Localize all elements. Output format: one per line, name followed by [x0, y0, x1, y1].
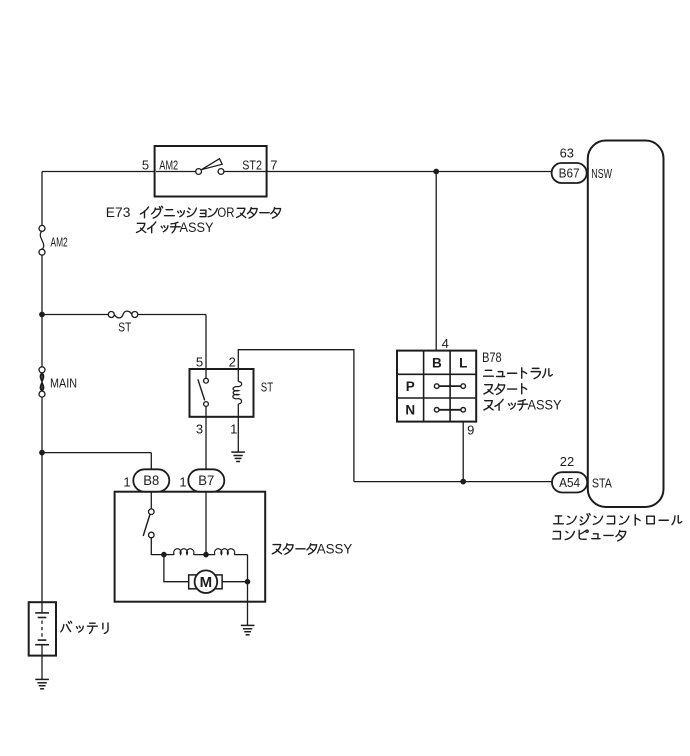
battery plate long bottom — [35, 644, 49, 646]
svg-text:B: B — [432, 355, 442, 370]
node F junction (B7 feed) — [204, 552, 209, 557]
wire: node C down to neutral start switch pin 4 — [435, 172, 437, 351]
wire: node A to fuse ST — [42, 314, 108, 316]
fuse ST right terminal — [132, 312, 138, 318]
svg-text:1: 1 — [179, 475, 186, 490]
B78 contact N row left terminal — [434, 408, 439, 413]
B78 contact P row right terminal — [461, 384, 466, 389]
svg-text:22: 22 — [560, 454, 574, 469]
battery cells dashed link — [41, 621, 43, 638]
battery box — [29, 602, 56, 655]
label バッテリ — [61, 621, 72, 632]
wire: ST2 contact to ECU NSW junction — [224, 171, 552, 173]
wire: neutral start switch pin 9 down to STA line — [462, 422, 464, 482]
svg-text:7: 7 — [270, 158, 277, 173]
wire: node G to starter ground — [247, 582, 249, 626]
ground: battery — [35, 678, 49, 680]
fuse ST left terminal — [108, 312, 114, 318]
fusible link MAIN element — [40, 373, 44, 391]
svg-text:NSW: NSW — [591, 166, 612, 181]
fuse ST element — [114, 311, 132, 318]
wire: STA line to ECU pin A54 — [354, 481, 552, 483]
B78 contact N row bar — [437, 409, 464, 411]
svg-text:E73: E73 — [106, 205, 131, 220]
starter motor left brush — [189, 575, 198, 589]
ignition switch movable contact (wedge) — [201, 159, 222, 170]
battery plate short bottom — [38, 639, 47, 641]
svg-text:A54: A54 — [559, 475, 580, 490]
neutral start switch B78 body — [397, 351, 476, 422]
wire: connector B7 down to node F — [205, 491, 207, 555]
label ニュートラル — [484, 370, 494, 376]
svg-text:63: 63 — [560, 146, 574, 161]
starter motor M body — [195, 570, 218, 593]
svg-text:ASSY: ASSY — [528, 398, 562, 413]
wire: coil link at node F — [193, 554, 215, 556]
svg-text:B67: B67 — [559, 166, 580, 181]
label スタート — [484, 385, 493, 394]
wire: node E to pull-in coil — [164, 554, 174, 556]
node D junction (neutral start switch pin 9) — [461, 479, 466, 484]
svg-text:ST: ST — [118, 320, 131, 335]
starter magnetic switch bottom contact — [149, 532, 155, 538]
B78 contact N row right terminal — [461, 408, 466, 413]
svg-text:AM2: AM2 — [159, 158, 178, 173]
label イグニッションORスタータ (part1 kana) — [140, 207, 148, 218]
svg-text:AM2: AM2 — [51, 235, 68, 250]
wire: magnetic switch to node E — [151, 538, 164, 555]
ignition switch E73 box — [155, 146, 267, 197]
battery plate long top — [35, 612, 49, 614]
fuse AM2 top terminal — [39, 225, 45, 231]
svg-text:L: L — [459, 355, 467, 370]
label エンジンコントロール — [554, 516, 564, 524]
svg-text:ST: ST — [261, 380, 273, 395]
wire: node B to connector B8 — [42, 453, 151, 470]
label スイッチASSY (B78 kana) — [484, 401, 493, 410]
wire: relay pin 2 up and over to STA line — [238, 350, 354, 482]
label イグニッションORスタータ (n) — [208, 209, 217, 217]
svg-text:ASSY: ASSY — [180, 220, 214, 235]
wire: holding coil to node G — [234, 555, 247, 582]
node B junction (starter branch) — [40, 450, 45, 455]
starter pull-in coil — [174, 549, 194, 555]
fuse AM2 element — [40, 231, 43, 250]
wire: relay switch to pin 3 and connector B7 — [205, 406, 207, 469]
ignition switch contact AM2 (pin 5 side) — [196, 169, 202, 175]
ignition switch contact ST2 (pin 7 side) — [218, 169, 224, 175]
node E junction — [162, 552, 167, 557]
starter assembly box — [115, 492, 266, 602]
label スタータ — [236, 208, 245, 217]
svg-text:1: 1 — [230, 422, 237, 437]
wire: battery top lead — [41, 602, 43, 613]
wire: B8 into magnetic switch — [150, 491, 152, 509]
wire: +B feed, left vertical riser top corner to ignition switch — [42, 171, 196, 173]
fuse AM2 bottom terminal — [39, 249, 45, 255]
B78 table inner lines — [397, 351, 476, 422]
relay switch bottom contact — [204, 402, 209, 407]
wire: battery negative lead to ground — [41, 645, 43, 680]
starter motor right brush — [213, 575, 222, 589]
svg-text:5: 5 — [142, 158, 149, 173]
svg-text:M: M — [200, 574, 213, 591]
connector B7 — [188, 469, 224, 491]
battery plate short top — [38, 617, 47, 619]
svg-text:3: 3 — [196, 422, 203, 437]
svg-text:5: 5 — [196, 355, 203, 370]
wire: relay pin5 lead into switch — [205, 369, 207, 378]
ground: starter motor — [241, 624, 255, 626]
wire: battery positive riser (top section) — [41, 172, 43, 226]
starter relay box — [190, 369, 254, 417]
svg-text:B78: B78 — [482, 350, 502, 365]
wire: fuse ST to starter relay pin 5 — [138, 315, 206, 370]
ground: starter relay — [231, 451, 245, 453]
svg-text:ASSY: ASSY — [317, 541, 353, 556]
B78 contact P row left terminal — [434, 384, 439, 389]
B78 contact P row bar — [437, 385, 464, 387]
fusible link MAIN top terminal — [39, 367, 45, 373]
svg-text:9: 9 — [467, 423, 474, 438]
label スタータ (starter assy) — [272, 545, 281, 554]
connector A54 (STA) — [552, 472, 587, 492]
svg-text:N: N — [405, 403, 415, 418]
wire: riser between fuse AM2 and node A — [41, 255, 43, 314]
svg-text:2: 2 — [229, 355, 236, 370]
relay coil ST — [233, 382, 242, 405]
node C junction (NSW branch) — [434, 169, 439, 174]
label コンピュータ — [553, 531, 561, 539]
fusible link MAIN bottom terminal — [39, 391, 45, 397]
relay switch top contact — [204, 378, 209, 383]
wire: relay coil to pin 1 and ground — [237, 404, 239, 452]
svg-text:OR: OR — [217, 205, 234, 220]
svg-text:MAIN: MAIN — [50, 376, 77, 391]
svg-text:B7: B7 — [198, 473, 214, 488]
wire: riser between node A and fusible link MAIN — [41, 315, 43, 367]
relay switch arm — [198, 379, 205, 400]
starter magnetic switch top contact — [149, 509, 155, 515]
svg-text:1: 1 — [123, 475, 130, 490]
svg-text:P: P — [406, 379, 415, 394]
svg-text:4: 4 — [442, 336, 449, 351]
wire: riser from node B down to battery — [41, 453, 43, 603]
starter holding coil — [215, 549, 235, 555]
node G junction (motor/ground) — [245, 579, 250, 584]
wire: riser between MAIN and node B — [41, 397, 43, 452]
wire: motor right brush to node G — [222, 581, 247, 583]
svg-text:B8: B8 — [143, 473, 159, 488]
svg-text:ST2: ST2 — [242, 158, 262, 173]
svg-text:STA: STA — [592, 476, 612, 491]
label スイッチASSY (line2 kana) — [136, 223, 145, 232]
wire: node E to motor left brush — [164, 555, 189, 582]
starter magnetic switch arm — [143, 515, 150, 537]
node A junction (ST branch) — [40, 312, 45, 317]
connector B8 — [133, 469, 169, 491]
ECU body (engine control computer) — [588, 141, 664, 508]
connector B67 (NSW) — [552, 163, 587, 183]
wire: inside ignition switch, AM2 side — [156, 171, 196, 173]
